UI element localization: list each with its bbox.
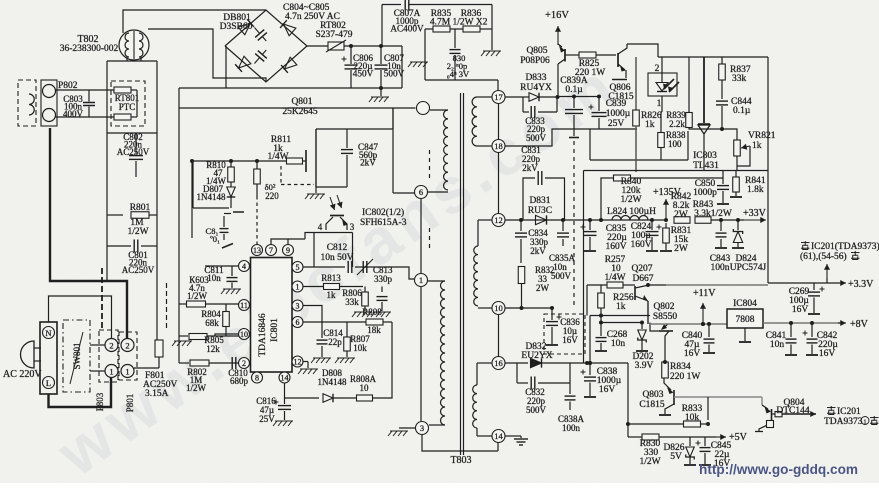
shunt regulator IC803 TL431 <box>703 57 705 123</box>
resistor R801 <box>107 214 123 216</box>
resistor R804 <box>225 304 227 311</box>
svg-text:R801: R801 <box>130 203 151 213</box>
svg-text:500V: 500V <box>526 405 547 415</box>
svg-text:6: 6 <box>296 318 300 327</box>
svg-text:17: 17 <box>494 92 503 102</box>
svg-text:R834: R834 <box>670 362 691 372</box>
svg-text:1N4148: 1N4148 <box>197 192 226 202</box>
svg-text:http://www.go-gddq.com: http://www.go-gddq.com <box>699 462 858 477</box>
more junction dots <box>520 306 524 310</box>
wire opto supply rail <box>658 56 768 58</box>
junction dots <box>701 322 705 326</box>
svg-text:3.15A: 3.15A <box>145 389 169 399</box>
rectified B+ rail y220 <box>505 219 666 221</box>
svg-text:1k: 1k <box>645 120 655 130</box>
potentiometer VR821 <box>722 129 737 140</box>
diode D808 wire from pin14 <box>285 383 320 398</box>
svg-text:1k: 1k <box>327 290 337 300</box>
T803 primary top pin <box>417 102 430 115</box>
svg-text:10: 10 <box>240 330 248 339</box>
svg-text:3: 3 <box>296 302 300 311</box>
svg-text:10: 10 <box>360 383 370 393</box>
pin 10 <box>492 302 505 315</box>
pin 17 <box>492 91 505 104</box>
svg-text:16V: 16V <box>562 335 578 345</box>
svg-text:330p: 330p <box>374 274 393 284</box>
fuse F801 <box>155 340 163 357</box>
svg-text:+8V: +8V <box>850 319 869 330</box>
secondary winding 12-10 <box>478 219 492 221</box>
Q804 output arrow <box>782 413 816 415</box>
svg-text:14: 14 <box>494 431 503 441</box>
svg-text:IC201: IC201 <box>837 407 861 417</box>
svg-text:EU2YX: EU2YX <box>521 351 552 361</box>
wire drain link <box>316 128 393 130</box>
wire gate drive loop <box>192 161 194 208</box>
svg-text:P801: P801 <box>125 394 135 413</box>
svg-text:160V: 160V <box>630 240 651 250</box>
line-filter transformer T802 <box>119 30 149 60</box>
svg-text:º0₁: º0₁ <box>210 234 220 244</box>
svg-text:36-238300-002: 36-238300-002 <box>60 44 119 54</box>
svg-text:68k: 68k <box>205 318 219 328</box>
svg-text:1/2W: 1/2W <box>639 457 660 467</box>
wire P802 to RT801 lower <box>56 116 115 118</box>
node 3 pin <box>416 422 429 435</box>
snubber capacitor C831 <box>523 178 535 220</box>
svg-text:3: 3 <box>350 222 355 232</box>
pin 12 of IC ground <box>292 356 303 367</box>
capacitor C843 <box>720 220 722 231</box>
wire Q805 collector down <box>557 64 559 97</box>
svg-text:4.7M: 4.7M <box>430 18 451 28</box>
svg-text:10n 50V: 10n 50V <box>321 253 354 263</box>
svg-text:16V: 16V <box>792 305 809 315</box>
capacitor C839A <box>573 97 575 109</box>
capacitor C811 <box>231 266 233 276</box>
svg-text:T803: T803 <box>450 455 471 466</box>
thermistor RT801 (PTC) <box>111 81 145 126</box>
svg-text:12: 12 <box>494 215 503 225</box>
resistor R825 <box>565 54 579 56</box>
resistor R832 <box>518 267 525 284</box>
svg-text:4: 4 <box>242 262 246 271</box>
transistor Q805 P08P06 <box>564 49 566 62</box>
B+ wire to transformer <box>179 107 416 109</box>
zener D826 <box>689 437 691 446</box>
right side bus down <box>767 57 769 283</box>
svg-text:1/4W: 1/4W <box>604 273 625 283</box>
svg-text:5: 5 <box>296 263 300 272</box>
capacitor C836 (dashed box) <box>544 314 585 354</box>
pin 12 <box>492 214 505 227</box>
switch SW801 <box>63 320 90 392</box>
svg-text:25V: 25V <box>608 119 625 129</box>
svg-text:1N4148: 1N4148 <box>318 377 347 387</box>
label C835 <box>589 220 591 230</box>
base rail networks <box>590 315 650 317</box>
diode D807 <box>230 182 232 187</box>
svg-text:3: 3 <box>420 423 424 433</box>
capacitor C268 <box>600 323 602 337</box>
svg-text:D831: D831 <box>529 196 550 206</box>
wire right end of rails <box>401 46 403 88</box>
svg-text:AC250V: AC250V <box>122 265 155 275</box>
capacitor C839 electrolytic <box>598 97 600 112</box>
svg-text:18: 18 <box>494 141 503 151</box>
wire opto pin1 down <box>661 96 663 112</box>
left ladder rails <box>106 61 108 281</box>
svg-text:TDA16846: TDA16846 <box>258 313 268 357</box>
wire C839 bottom return to pin 18 <box>505 129 637 146</box>
capacitor C838A <box>569 383 571 394</box>
wire opto pin4 to pins7-9 bridge <box>288 238 305 240</box>
pin 6 of IC <box>292 317 303 328</box>
capacitor C832 branch <box>516 363 518 383</box>
svg-text:400V: 400V <box>63 109 84 119</box>
svg-text:6: 6 <box>419 187 423 197</box>
svg-text:C1815: C1815 <box>639 400 665 410</box>
wire pin3 down to bottom rail <box>422 435 498 451</box>
svg-text:UPC574J: UPC574J <box>730 263 767 273</box>
svg-text:1k: 1k <box>752 141 762 151</box>
svg-text:Q207: Q207 <box>631 264 652 274</box>
capacitor C842 <box>811 323 813 337</box>
bridge rectifier DB801 <box>225 10 307 82</box>
resistor R843 <box>695 217 711 224</box>
+8V output rail <box>763 322 844 324</box>
T803 primary winding lower <box>428 280 445 282</box>
wire R836 right down to ground <box>491 5 493 51</box>
svg-text:16: 16 <box>494 358 503 368</box>
svg-text:1/2W: 1/2W <box>187 291 208 301</box>
svg-text:10: 10 <box>494 303 503 313</box>
connector P801 circles <box>119 332 137 380</box>
svg-text:33k: 33k <box>732 74 747 84</box>
svg-text:Q802: Q802 <box>653 302 674 312</box>
capacitor C845 <box>704 437 706 446</box>
svg-text:Q801: Q801 <box>291 97 312 107</box>
secondary winding 16-14 <box>477 362 492 364</box>
svg-text:680p: 680p <box>230 376 249 386</box>
resistor R256 <box>600 285 602 293</box>
svg-text:Q805: Q805 <box>526 46 547 56</box>
capacitor C812 <box>303 266 345 268</box>
MOSFET Q801 <box>315 129 317 187</box>
resistor R803 <box>179 303 186 305</box>
svg-text:TL431: TL431 <box>693 161 719 171</box>
capacitor C847 <box>346 129 348 148</box>
connector P802 <box>18 80 36 126</box>
capacitor C830 <box>454 29 456 48</box>
svg-text:450V: 450V <box>353 69 374 79</box>
resistor R834 <box>662 362 669 378</box>
wire pin5 net to node 1 <box>392 267 414 279</box>
svg-text:R808: R808 <box>362 307 382 317</box>
svg-text:3.9V: 3.9V <box>635 361 654 371</box>
capacitor C8 at R806 <box>381 287 383 293</box>
capacitor C834 <box>520 220 522 231</box>
transistor Q803 C1815 <box>673 390 675 405</box>
chassis ground under return rail <box>380 88 382 96</box>
pin 13 <box>252 245 263 256</box>
svg-text:2W: 2W <box>674 210 688 220</box>
isolation dashed line right <box>573 141 575 308</box>
pin 1 of IC <box>292 281 303 292</box>
svg-text:D667: D667 <box>632 274 653 284</box>
resistor R808 <box>366 319 383 325</box>
isolation dash segment above P803 <box>101 268 103 329</box>
regulator block lower rail <box>589 129 591 160</box>
svg-text:18k: 18k <box>367 325 381 335</box>
resistor R838 <box>658 133 665 148</box>
capacitor C804 (in bridge) <box>250 24 271 45</box>
regulation rail <box>584 170 769 172</box>
pin 2 of IC <box>239 358 250 369</box>
bridge wire pins 7-9 <box>271 239 288 245</box>
svg-text:+16V: +16V <box>545 10 569 21</box>
secondary winding 17-18 <box>477 96 492 98</box>
C812 box wires <box>314 232 353 234</box>
wire pin6 bus <box>303 321 366 323</box>
svg-text:2.2k: 2.2k <box>669 119 685 129</box>
svg-text:PTC: PTC <box>119 102 136 112</box>
dashed feed to IC pin13 <box>256 196 258 245</box>
label goto IC201 top <box>801 242 810 244</box>
svg-text:1/4W: 1/4W <box>267 152 288 162</box>
wire T802 bottom bus <box>126 57 128 61</box>
svg-text:10n: 10n <box>207 273 221 283</box>
diode D832 <box>505 362 528 364</box>
svg-text:10n: 10n <box>611 339 626 349</box>
svg-text:N: N <box>45 328 51 338</box>
7808 ground pin <box>744 328 746 341</box>
svg-text:2: 2 <box>109 341 113 351</box>
svg-text:2: 2 <box>125 341 129 351</box>
wire gate net down <box>191 161 193 238</box>
wires SW801 to P803 <box>90 344 105 346</box>
svg-text:2kV: 2kV <box>530 246 546 256</box>
svg-text:1000p: 1000p <box>693 188 717 198</box>
pin 4 <box>239 261 250 272</box>
svg-text:P08P06: P08P06 <box>520 56 550 66</box>
vertical return line x179 <box>178 88 180 363</box>
svg-text:RU3C: RU3C <box>528 206 552 216</box>
dashed boundary at Q801 gate <box>280 166 282 184</box>
svg-text:14: 14 <box>281 374 289 383</box>
IC804 7808 regulator <box>727 309 763 328</box>
resistor R841 <box>735 171 737 178</box>
diode D831 <box>536 215 547 224</box>
collector rail y285 to right bus <box>666 284 768 286</box>
svg-text:33k: 33k <box>345 297 359 307</box>
svg-text:2W: 2W <box>536 283 550 293</box>
capacitor C816 <box>284 398 286 404</box>
svg-text:8: 8 <box>255 374 259 383</box>
svg-text:100n: 100n <box>562 423 581 433</box>
transformer T803 core <box>460 93 462 455</box>
resistor R831 <box>665 223 667 228</box>
svg-text:1k: 1k <box>616 302 626 312</box>
svg-text:RU4YX: RU4YX <box>520 83 552 93</box>
isolation dashed line near T803 <box>429 150 431 182</box>
svg-text:160V: 160V <box>605 242 626 252</box>
wire R257 left riser <box>586 285 588 316</box>
resistor R809 <box>256 161 258 169</box>
svg-text:L: L <box>46 378 51 388</box>
transistor Q804 DTC144 <box>761 397 763 405</box>
regulation ground riser to secondary ground <box>583 171 585 364</box>
svg-text:12: 12 <box>294 358 302 367</box>
resistor R837 <box>721 57 723 64</box>
isolation dash line above P801 <box>166 283 168 331</box>
capacitor C815 <box>223 216 225 227</box>
svg-text:1: 1 <box>419 275 423 285</box>
svg-text:1: 1 <box>296 283 300 292</box>
thick mains wire lower <box>49 378 112 408</box>
svg-text:+11V: +11V <box>693 288 716 299</box>
return rail (bridge left vertex) <box>179 87 402 89</box>
svg-text:5V: 5V <box>670 452 682 462</box>
svg-text:R813: R813 <box>321 273 341 283</box>
resistor R840 sense <box>601 178 603 220</box>
svg-text:Q803: Q803 <box>642 390 663 400</box>
varistor RT802 <box>328 42 344 50</box>
svg-text:16V: 16V <box>599 385 616 395</box>
svg-text:+33V: +33V <box>743 208 767 219</box>
svg-text:25V: 25V <box>259 414 275 424</box>
sec rail to R833 net <box>587 362 628 364</box>
rung under RT801 <box>107 132 157 134</box>
svg-text:IC201(TDA9373): IC201(TDA9373) <box>811 241 879 252</box>
transistor Q207 D667 <box>623 284 635 286</box>
wire R835 left end down <box>424 29 426 80</box>
wire pin14 to bottom rail <box>497 443 499 452</box>
label goto IC201 bottom <box>827 407 836 409</box>
capacitor C824 <box>651 220 653 230</box>
svg-text:L824 100µH: L824 100µH <box>607 207 656 217</box>
capacitor C801 <box>107 245 131 247</box>
capacitor C810 <box>231 357 233 369</box>
wire R839 to ref node <box>689 128 722 130</box>
svg-text:10k: 10k <box>353 343 367 353</box>
capacitor C850 <box>722 171 724 185</box>
resistor R805 <box>174 340 192 342</box>
svg-text:12k: 12k <box>206 344 220 354</box>
capacitor C802 <box>135 133 137 154</box>
supply rail to 7808 <box>651 323 727 325</box>
svg-text:C812: C812 <box>327 243 348 253</box>
svg-text:S8550: S8550 <box>653 312 678 322</box>
wire 10 to 16 <box>498 315 500 357</box>
svg-text:7808: 7808 <box>736 315 755 325</box>
svg-text:1/2W: 1/2W <box>620 195 641 205</box>
svg-text:1: 1 <box>657 99 662 109</box>
capacitor C833 <box>522 97 524 112</box>
wire top of T803 sec <box>425 79 498 81</box>
Q803 collector drive wire <box>674 396 762 398</box>
svg-text:10k: 10k <box>685 413 700 423</box>
pin 14 <box>492 430 505 443</box>
watermark <box>44 48 632 488</box>
svg-text:500V: 500V <box>526 133 547 143</box>
pin 11 <box>239 300 250 311</box>
svg-text:SFH615A-3: SFH615A-3 <box>360 218 407 228</box>
capacitor C814 <box>321 322 323 338</box>
wire drain riser to node 6 <box>392 108 394 193</box>
svg-text:1.8k: 1.8k <box>747 185 764 195</box>
svg-text:C839: C839 <box>606 99 627 109</box>
IC801 TDA16846 body <box>251 258 293 373</box>
zener D824 <box>737 220 739 230</box>
ground right of pin 14 <box>505 435 521 437</box>
wire 18 to 12 <box>498 153 500 214</box>
capacitor C269 <box>813 283 815 290</box>
pin 5 <box>292 262 303 273</box>
svg-text:IC802(1/2): IC802(1/2) <box>362 207 404 218</box>
gate wire <box>192 160 286 162</box>
svg-text:22p: 22p <box>328 337 342 347</box>
+5V rail <box>628 436 642 438</box>
svg-text:1: 1 <box>125 367 129 377</box>
T803 secondary bus <box>497 80 499 91</box>
capacitor C807A <box>382 4 401 6</box>
svg-text:₀4ⁿ 3V: ₀4ⁿ 3V <box>447 69 470 79</box>
svg-text:AC400V: AC400V <box>390 24 424 34</box>
resistor R835 <box>425 28 433 30</box>
svg-text:220 1W: 220 1W <box>670 372 700 382</box>
capacitor C840 <box>708 324 710 337</box>
pin 9 <box>283 245 294 256</box>
svg-text:+3.3V: +3.3V <box>848 279 874 290</box>
resistor R810 <box>230 161 232 167</box>
svg-text:100: 100 <box>668 139 682 149</box>
+3.3V rail <box>768 282 840 284</box>
capacitor C806 electrolytic <box>350 46 352 64</box>
pin 18 <box>492 140 505 153</box>
svg-text:0.1µ: 0.1µ <box>733 106 751 116</box>
wire T802 top to bridge top <box>123 10 266 33</box>
pin 7 <box>266 245 277 256</box>
B+ rail from bridge <box>307 45 402 47</box>
pin 8 <box>252 372 263 383</box>
connector P803 circles <box>99 330 118 382</box>
svg-text:2kV: 2kV <box>522 163 538 173</box>
svg-text:2W: 2W <box>674 244 688 254</box>
svg-text:13: 13 <box>253 246 261 255</box>
svg-text:10n: 10n <box>770 340 785 350</box>
thick mains wire to P801 upper <box>50 128 127 339</box>
svg-text:(61),(54-56): (61),(54-56) <box>800 251 847 262</box>
svg-text:11: 11 <box>240 301 248 310</box>
svg-text:AC 220V: AC 220V <box>3 369 42 380</box>
wire source bottom <box>316 186 347 188</box>
T803 primary winding upper <box>430 109 448 111</box>
wire node1 to node3 <box>420 287 422 421</box>
svg-text:D833: D833 <box>525 73 546 83</box>
resistor R802 <box>179 362 189 364</box>
capacitor C844 <box>716 100 728 102</box>
svg-text:IC803: IC803 <box>693 151 717 161</box>
svg-text:P803: P803 <box>95 392 105 411</box>
svg-text:2: 2 <box>242 359 246 368</box>
resistor R839 <box>688 57 690 112</box>
resistor R842 <box>666 219 667 221</box>
transistor Q806 C1815 <box>617 53 619 67</box>
resistor R811 <box>287 158 303 164</box>
svg-text:1/2W X2: 1/2W X2 <box>453 18 488 28</box>
resistor R806 <box>364 287 366 293</box>
